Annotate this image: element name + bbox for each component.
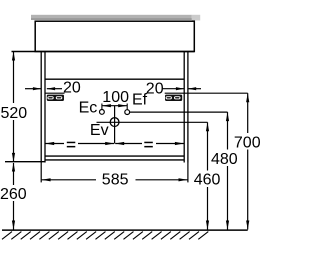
cabinet bottom panel — [45, 155, 184, 157]
svg-text:Ev: Ev — [90, 122, 109, 139]
right side panel — [183, 52, 185, 163]
dimension 260 — [0, 163, 27, 230]
Ef water line to 480 — [130, 111, 228, 113]
left drawer-rail bracket — [46, 93, 65, 101]
svg-text:460: 460 — [194, 172, 221, 189]
dimension 460 — [194, 122, 221, 229]
cabinet top line — [12, 51, 195, 53]
dimension 520 — [1, 52, 28, 162]
svg-text:100: 100 — [102, 89, 129, 106]
Ec circle — [100, 110, 105, 115]
svg-text:480: 480 — [211, 151, 238, 168]
left side panel — [40, 52, 42, 163]
bracket line to 700 — [188, 92, 248, 94]
Ef circle — [125, 110, 130, 115]
Ev drain symbol — [110, 106, 119, 144]
drawer top line — [45, 78, 184, 80]
right drawer-rail bracket — [165, 93, 188, 101]
dimension 480 — [211, 112, 238, 229]
svg-text:520: 520 — [1, 105, 28, 122]
dimension 20 right — [146, 80, 201, 97]
svg-text:20: 20 — [63, 79, 81, 96]
svg-text:Ec: Ec — [79, 100, 98, 117]
svg-text:20: 20 — [146, 80, 164, 97]
dimension 585 — [41, 162, 188, 189]
floor line — [2, 229, 248, 231]
svg-text:700: 700 — [234, 134, 260, 151]
bottom extension line left — [5, 161, 45, 163]
countertop gray top strip — [31, 15, 192, 20]
svg-text:Ef: Ef — [132, 92, 148, 109]
dimension 20 left — [25, 79, 81, 96]
svg-text:260: 260 — [0, 186, 27, 203]
dimension 700 — [234, 93, 261, 229]
dimension 100 — [102, 89, 129, 110]
countertop right end cap — [192, 15, 200, 21]
Ev drain line to 460 — [97, 121, 208, 123]
countertop front body — [35, 21, 194, 51]
floor hatching — [2, 232, 208, 240]
centering dimension (=) — [45, 142, 184, 148]
svg-text:585: 585 — [102, 171, 129, 188]
